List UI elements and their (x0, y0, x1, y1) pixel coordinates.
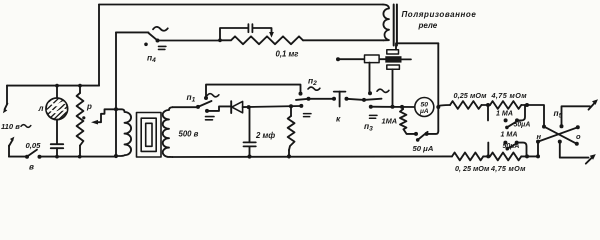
wire: П5 to line output (bottom) (560, 142, 589, 158)
resistor 1 ма (vertical zigzag) (400, 107, 416, 134)
junction dot rheostat top (78, 84, 82, 88)
resistor 0,25 мом (top) (450, 101, 482, 109)
svg-text:р: р (86, 102, 92, 111)
rheostat wiper arrow to node (82, 109, 116, 124)
wire: 0,1 Mg to relay coil bottom (303, 39, 384, 41)
transformer T1 core (137, 113, 162, 158)
lamp Л (hatched bulb) (40, 86, 76, 144)
diode D1 (231, 101, 242, 113)
relay coil (polarized relay) (383, 5, 389, 41)
svg-text:110 в: 110 в (1, 122, 20, 131)
switch П2 (AC/DC selector) (296, 87, 320, 117)
switch В (blade and contacts) (25, 150, 42, 159)
wire: top bus from node A down-corner to relay coil (99, 4, 383, 6)
junction dot 1 ма shunt branch (400, 105, 404, 109)
line terminal arrow (top right) (589, 99, 599, 109)
junction dot lamp top (55, 84, 59, 88)
capacitor 2 мф (244, 107, 256, 158)
svg-text:Поляризованное: Поляризованное (402, 10, 477, 19)
svg-text:о: о (576, 132, 581, 141)
svg-text:0, 25 мОм: 0, 25 мОм (455, 164, 490, 173)
wire: bottom rail from switch В to transformer primary bottom (40, 156, 117, 158)
relay core bars (394, 5, 397, 46)
svg-text:1МА: 1МА (382, 116, 398, 125)
relay bottom contact (387, 65, 400, 107)
bleeder resistor (vertical zigzag) (287, 106, 295, 158)
svg-text:0,05: 0,05 (26, 141, 42, 150)
relay armature tongue (black) (385, 56, 401, 62)
label 110 в ~ (1, 122, 31, 131)
resistor 0,25 мом (bottom) (452, 153, 483, 161)
junction dot meter right (436, 105, 440, 109)
wire: vertical B from П4 wire to transformer primary bottom (115, 32, 117, 156)
transformer T1 primary winding (116, 109, 131, 156)
resistor 4,75 мом (top) (490, 101, 521, 109)
wire: П5 to line output (top) (562, 106, 591, 126)
potentiometer 0,1 Mg (220, 36, 303, 44)
junction dot relay bottom contact stem (391, 105, 395, 109)
svg-text:1 МА: 1 МА (496, 109, 513, 117)
mains terminal arrow (top) (3, 86, 8, 114)
svg-text:500 в: 500 в (179, 130, 199, 139)
capacitor 0,05 plates (51, 144, 63, 156)
svg-text:в: в (29, 162, 34, 171)
junction dot lamp bottom (55, 155, 59, 159)
wire: diode to П2 DC contact (243, 106, 301, 107)
wire: top row to П5 input (521, 103, 544, 127)
junction dot rheostat bottom (78, 155, 82, 159)
junction dot primary bottom (114, 154, 118, 158)
svg-text:п3: п3 (364, 121, 373, 133)
wire and junction between bottom resistors (483, 154, 490, 158)
wire: meter right node vertical (relay contact to shunt switch) (437, 43, 439, 131)
switch П4 (AC/DC selector) (116, 27, 168, 50)
transformer T1 secondary winding (163, 107, 173, 157)
svg-text:л: л (38, 104, 44, 113)
wire: П1 AC contact riser to AC bypass bus (206, 85, 301, 98)
wire: key K to П3 (347, 99, 365, 100)
range bypass 1 МА (top row) (488, 105, 525, 129)
resistor 4,75 мом (bottom) (490, 153, 521, 161)
svg-text:н: н (537, 132, 542, 141)
svg-text:μА: μА (419, 108, 429, 115)
svg-text:1 МА: 1 МА (501, 131, 518, 139)
relay armature lever (336, 55, 386, 63)
line terminal arrow (bottom right) (586, 154, 596, 164)
wire: П1 DC contact to diode (207, 106, 231, 111)
wire: П3 DC contact to meter (371, 106, 415, 108)
wire: П4 output to resistor node (158, 40, 221, 42)
svg-text:реле: реле (418, 21, 438, 30)
polarity switch П5 crossover (536, 124, 580, 146)
svg-text:к: к (336, 114, 341, 124)
meter 50 μа (415, 98, 434, 117)
shunt switch 50 μа (414, 131, 438, 142)
capacitor across 0,1 Mg with wiper arrow (220, 24, 274, 40)
switch П3 (relay/direct selector) (362, 89, 389, 118)
svg-text:50μА: 50μА (503, 143, 520, 150)
svg-text:50 μА: 50 μА (413, 144, 434, 153)
range bypass 1 МА (bottom row) (488, 141, 526, 157)
svg-text:4,75 мОм: 4,75 мОм (491, 91, 528, 100)
wire: meter node to top range resistors (438, 105, 450, 106)
wire: 110v bottom rail left segment (9, 156, 27, 158)
wire: secondary top to П1 (173, 106, 199, 108)
svg-text:п2: п2 (308, 76, 317, 88)
svg-text:0,1 мг: 0,1 мг (276, 50, 299, 59)
junction dot 2 мф (247, 105, 251, 109)
junction dot bleeder resistor top (289, 104, 293, 108)
mains terminal arrow (bottom) (9, 137, 14, 157)
svg-text:50μА: 50μА (514, 122, 531, 129)
wire: main bottom rail from secondary to measuring network (173, 155, 453, 158)
svg-text:п4: п4 (147, 53, 156, 65)
relay top contact (387, 43, 439, 54)
svg-text:2 мф: 2 мф (255, 131, 275, 140)
svg-text:п1: п1 (187, 92, 196, 104)
wire: bottom row to П5 input (521, 142, 540, 159)
svg-text:0,25 мОм: 0,25 мОм (454, 91, 488, 100)
svg-text:4,75 мОм: 4,75 мОм (490, 164, 526, 173)
telegraph key К (332, 92, 349, 107)
switch П1 (AC/DC selector) (196, 94, 219, 120)
wire: П2 to key K (309, 98, 335, 100)
rheostat Р (vertical zigzag) (77, 86, 84, 157)
wire: 110v top rail (7, 85, 99, 87)
wire: armature to П3 AC contact (369, 63, 371, 94)
junction dot primary top (114, 107, 118, 111)
wire and junction between top resistors (482, 103, 491, 107)
junction dot 0,1 Mg left node (218, 38, 222, 42)
wire: vertical A from top bus to 110v top rail (98, 5, 100, 86)
